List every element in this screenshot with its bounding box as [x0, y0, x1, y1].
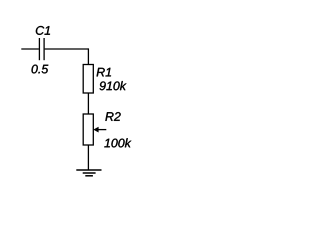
- capacitor C1 plates: [39, 38, 44, 60]
- ground: [76, 170, 101, 176]
- label R1: [97, 68, 111, 77]
- wiper arrow of R2: [93, 127, 106, 133]
- label R2: [105, 112, 120, 121]
- wire corner down to R1: [87, 48, 89, 64]
- label 100k: [104, 138, 131, 147]
- wire R2 to ground: [87, 145, 89, 170]
- resistor R1 body: [83, 65, 93, 94]
- wire capacitor to corner: [45, 48, 89, 50]
- resistor R2 body (potentiometer): [83, 114, 93, 145]
- wire left stub: [21, 48, 39, 50]
- label 910k: [100, 81, 127, 90]
- wire R1 to R2: [87, 93, 89, 114]
- label C1: [36, 26, 50, 35]
- label 0.5: [32, 65, 49, 74]
